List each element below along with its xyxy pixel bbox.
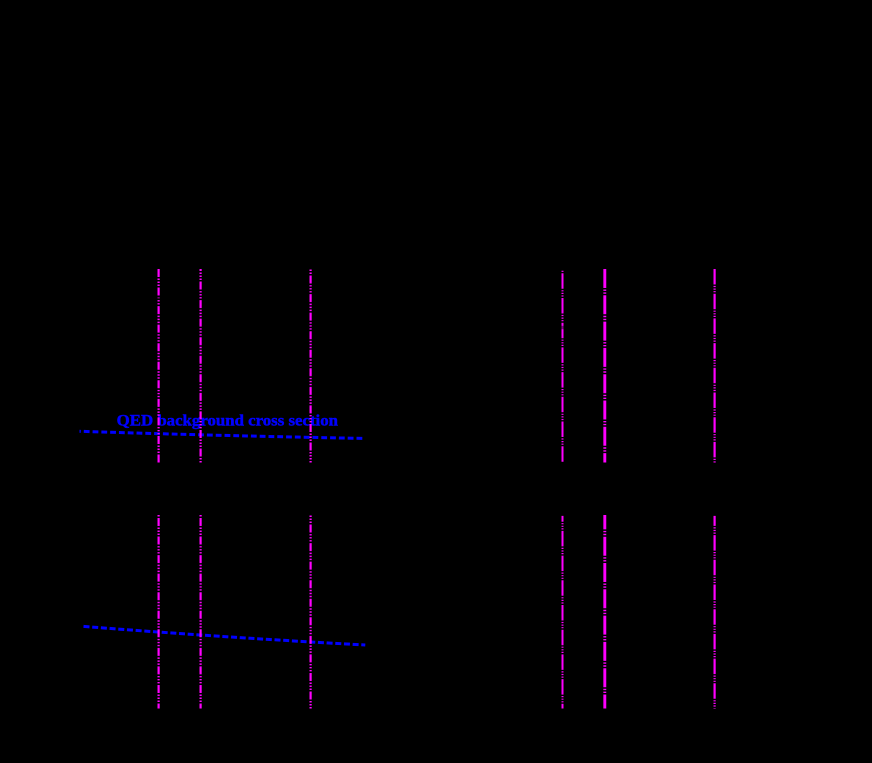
svg-text:QED background cross section: QED background cross section — [117, 413, 339, 430]
